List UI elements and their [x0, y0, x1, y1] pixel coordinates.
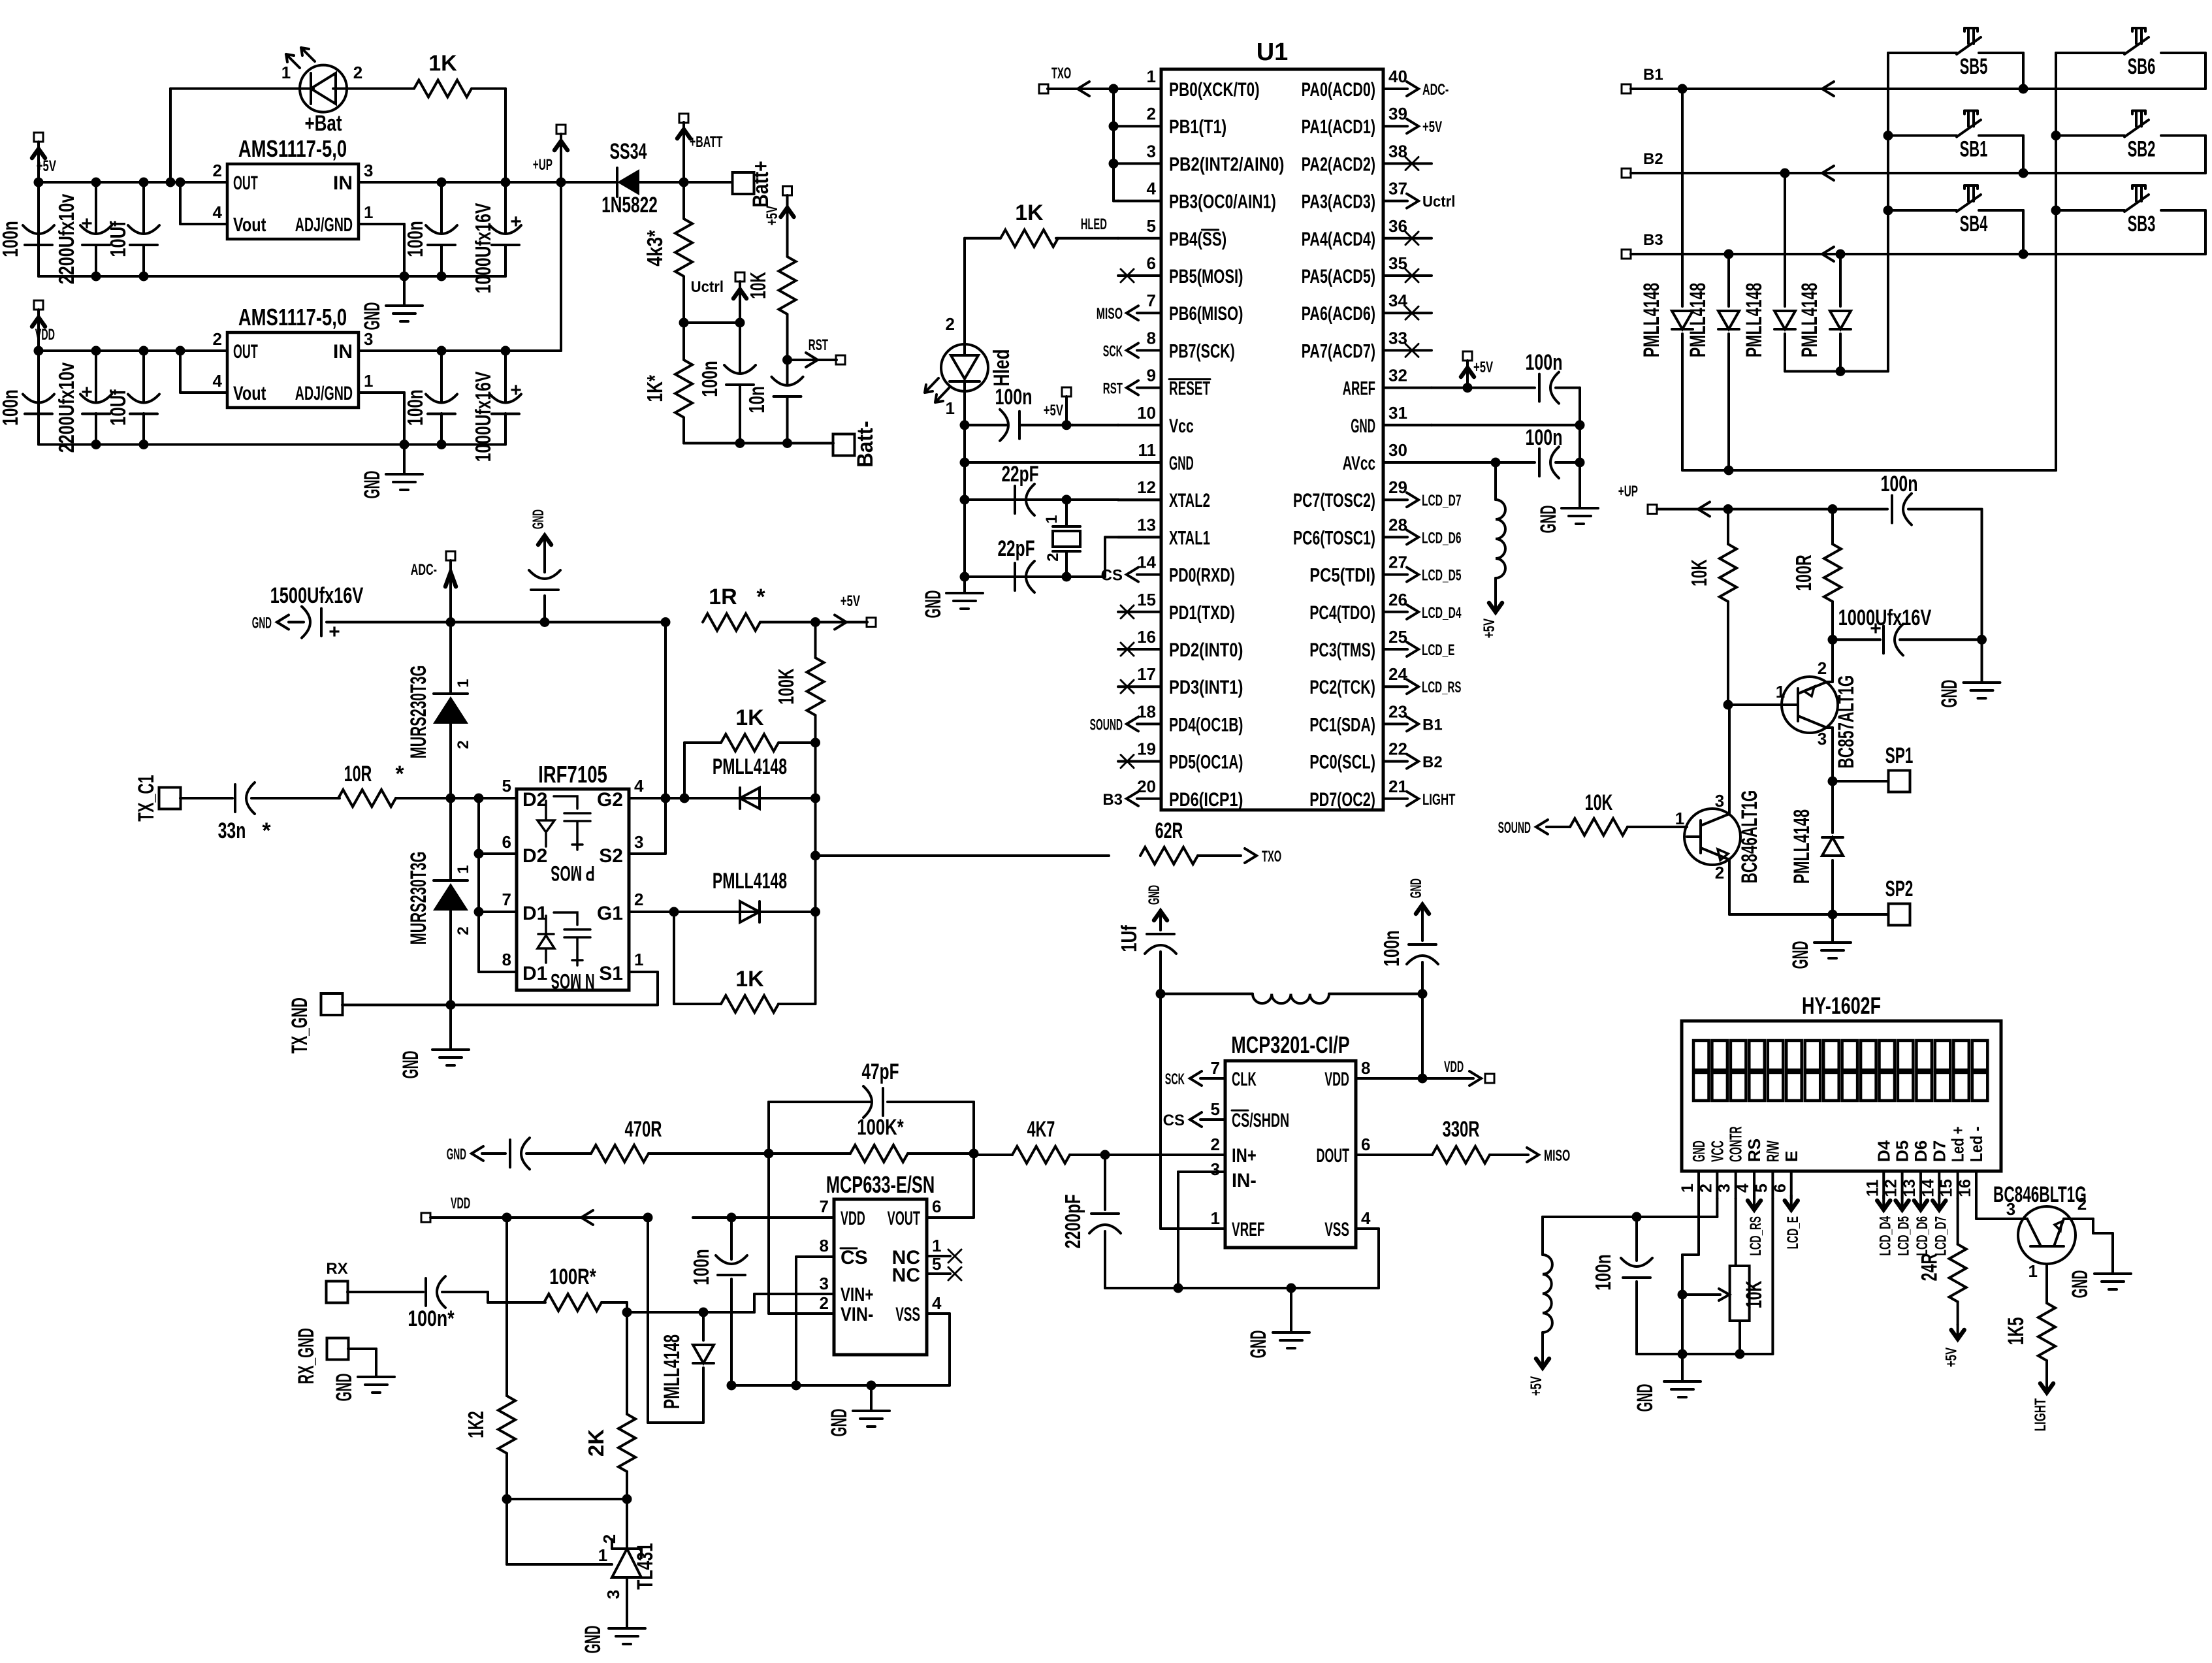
IC IRF7105 body — [517, 789, 629, 990]
capacitor 33n* — [180, 797, 232, 799]
svg-text:VIN-: VIN- — [841, 1304, 873, 1325]
svg-text:OUT: OUT — [233, 341, 258, 363]
wire +UP vertical to reg2 — [560, 182, 562, 351]
svg-text:4: 4 — [1361, 1208, 1371, 1228]
svg-text:13: 13 — [1900, 1179, 1919, 1197]
svg-text:CS: CS — [1163, 1112, 1185, 1129]
LCD pin 5 R/W — [1771, 1171, 1774, 1199]
pin 25 PC3(TMS) — [1383, 648, 1407, 651]
capacitor 100n (input 1) — [25, 244, 52, 246]
wire RX jog — [487, 1292, 489, 1302]
wire G1 pin2 — [629, 911, 816, 913]
svg-text:1000Ufx16V: 1000Ufx16V — [471, 203, 495, 294]
svg-text:VOUT: VOUT — [888, 1208, 920, 1229]
wire gnd drop — [1579, 425, 1581, 508]
connector TX_GND — [321, 993, 343, 1015]
net VDD — [34, 300, 43, 310]
svg-text:CLK: CLK — [1232, 1069, 1257, 1090]
svg-text:PC1(SDA): PC1(SDA) — [1309, 714, 1375, 735]
pin 31 GND — [1383, 424, 1432, 427]
svg-text:AVcc: AVcc — [1343, 453, 1375, 474]
svg-text:2: 2 — [455, 740, 472, 749]
svg-text:CONTR: CONTR — [1726, 1126, 1746, 1162]
svg-text:2: 2 — [213, 161, 222, 180]
svg-text:*: * — [262, 818, 271, 843]
switch SB5 — [1887, 53, 1889, 372]
svg-text:5: 5 — [1147, 216, 1156, 236]
svg-text:VSS: VSS — [895, 1304, 920, 1325]
wire LCD bottom gnd bus — [1637, 1353, 1772, 1355]
net GND arrow (470R) — [472, 1146, 483, 1161]
net LCD_D4 arrow pin26 — [1407, 605, 1419, 619]
capacitor 100n (LCD) — [1635, 1217, 1638, 1261]
connector RX — [327, 1282, 348, 1303]
resistor 2K — [626, 1312, 628, 1414]
capacitor 10n — [786, 360, 789, 383]
svg-text:PC0(SCL): PC0(SCL) — [1309, 752, 1375, 773]
svg-text:PC3(TMS): PC3(TMS) — [1309, 639, 1375, 661]
svg-text:1K: 1K — [735, 967, 764, 992]
wire vcc to inductor — [1541, 1217, 1544, 1255]
svg-text:100K*: 100K* — [857, 1115, 904, 1140]
capacitor 22pF (XTAL1) — [1014, 563, 1016, 590]
svg-text:TXO: TXO — [1262, 848, 1281, 865]
svg-text:LCD_RS: LCD_RS — [1747, 1216, 1765, 1256]
svg-text:GND: GND — [1351, 415, 1375, 437]
net VDD (opamp) — [421, 1213, 430, 1222]
svg-text:HY-1602F: HY-1602F — [1802, 992, 1881, 1019]
inductor L2 (VDD) — [1253, 994, 1329, 1004]
svg-text:1: 1 — [1211, 1208, 1220, 1228]
svg-text:13: 13 — [1137, 515, 1156, 534]
svg-text:LCD_D7: LCD_D7 — [1932, 1216, 1949, 1256]
svg-text:11: 11 — [1138, 440, 1157, 460]
LCD pin 3 CONTR — [1735, 1171, 1737, 1199]
pin 15 PD1(TXD) — [1118, 611, 1161, 613]
svg-text:10K: 10K — [1742, 1280, 1767, 1308]
svg-text:25: 25 — [1388, 627, 1407, 647]
svg-text:12: 12 — [1137, 477, 1156, 497]
X noconnect pin35 — [1405, 269, 1419, 282]
net LCD_D5 arrow pin27 — [1407, 568, 1419, 582]
net +BATT — [679, 178, 689, 187]
svg-text:PA7(ACD7): PA7(ACD7) — [1302, 340, 1375, 362]
connector B1 — [1622, 84, 1631, 93]
net LCD_D6 arrow pin13 — [1914, 1201, 1927, 1210]
resistor 470R — [591, 1145, 649, 1162]
switch SB2 — [2055, 135, 2057, 137]
net MISO arrow — [1527, 1148, 1539, 1162]
resistor 62R — [1140, 847, 1198, 864]
svg-text:1: 1 — [364, 202, 373, 222]
wire divider bottoms — [507, 1498, 627, 1500]
svg-text:24R: 24R — [1917, 1253, 1942, 1282]
wire clamp to VDD — [648, 1421, 703, 1424]
ground GND (reg1) — [403, 276, 406, 306]
diode PMLL4148 (B2) — [1780, 169, 1790, 178]
svg-text:D2: D2 — [522, 789, 547, 811]
svg-text:LCD_RS: LCD_RS — [1422, 679, 1462, 696]
wire gnd corner — [1981, 509, 1983, 640]
wire S1 hook — [629, 971, 658, 973]
capacitor 100n (reg1 out?in) — [440, 182, 443, 233]
pin 36 PA4(ACD4) — [1383, 237, 1432, 240]
wire G2 pin4 — [629, 797, 816, 799]
svg-text:VDD: VDD — [35, 326, 55, 344]
pin 17 PD3(INT1) — [1118, 685, 1161, 688]
LCD pin 12 D5 — [1901, 1171, 1904, 1199]
resistor 4K7 — [1012, 1146, 1070, 1163]
svg-text:TX_C1: TX_C1 — [134, 775, 159, 821]
svg-text:Vout: Vout — [233, 214, 266, 236]
svg-text:100n: 100n — [403, 221, 427, 257]
svg-text:100n: 100n — [0, 389, 22, 425]
switch SB1 — [1887, 135, 1889, 137]
svg-text:1: 1 — [1776, 682, 1785, 702]
pin 13 XTAL1 — [1118, 536, 1161, 538]
resistor 4k3* — [682, 182, 685, 218]
svg-text:10n: 10n — [745, 386, 769, 413]
svg-text:2K: 2K — [584, 1429, 608, 1457]
wire Vcc pin10 — [1072, 424, 1118, 427]
svg-text:4: 4 — [932, 1293, 942, 1313]
svg-text:SP1: SP1 — [1885, 743, 1914, 768]
svg-text:1K: 1K — [735, 705, 764, 730]
resistor 100R — [1828, 504, 1838, 514]
svg-text:IN-: IN- — [1232, 1170, 1257, 1191]
X noconnect pin34 — [1405, 306, 1419, 319]
svg-text:3: 3 — [364, 161, 373, 180]
pin 14 PD0(RXD) — [1137, 573, 1161, 576]
pin 27 PC5(TDI) — [1383, 573, 1407, 576]
svg-text:S1: S1 — [599, 963, 623, 984]
X noconnect NC5 — [927, 1272, 950, 1275]
pin 38 PA2(ACD2) — [1383, 162, 1432, 165]
svg-text:3: 3 — [1147, 141, 1156, 161]
svg-text:PD6(ICP1): PD6(ICP1) — [1169, 789, 1243, 811]
svg-text:6: 6 — [1147, 253, 1156, 273]
wire VOUT pin6 to 100K node — [927, 1216, 974, 1219]
resistor 100K* — [850, 1145, 908, 1162]
svg-text:PB6(MISO): PB6(MISO) — [1169, 303, 1243, 325]
net SCK arrow (CLK pin7) — [1200, 1077, 1225, 1080]
svg-text:SB3: SB3 — [2128, 212, 2156, 236]
svg-text:+Bat: +Bat — [304, 111, 342, 136]
connector Batt+ — [733, 172, 754, 194]
svg-text:3: 3 — [820, 1274, 829, 1293]
svg-text:VSS: VSS — [1324, 1219, 1349, 1240]
wire bottom rail 3 — [684, 442, 833, 445]
svg-text:100n: 100n — [0, 221, 22, 257]
svg-text:+5V: +5V — [1044, 402, 1063, 419]
X noconnect pin16 — [1121, 643, 1134, 656]
X noconnect NC1 — [927, 1255, 950, 1257]
svg-text:2: 2 — [455, 926, 472, 935]
svg-text:R/W: R/W — [1763, 1140, 1782, 1162]
wire emitter to GND — [2092, 1219, 2094, 1233]
svg-text:100n: 100n — [689, 1249, 713, 1285]
svg-text:CS/SHDN: CS/SHDN — [1232, 1110, 1289, 1131]
resistor 1K2 — [502, 1213, 512, 1223]
capacitor 100n (Uctrl) — [735, 318, 745, 328]
wire Vout jumper (2) — [180, 391, 227, 394]
svg-text:PMLL4148: PMLL4148 — [660, 1334, 684, 1409]
svg-text:100n: 100n — [1591, 1254, 1615, 1290]
svg-text:RESET: RESET — [1169, 378, 1210, 400]
svg-text:7: 7 — [1147, 291, 1156, 310]
resistor 100R* — [544, 1294, 601, 1311]
wire GND pin11 — [965, 461, 1118, 464]
svg-text:PB1(T1): PB1(T1) — [1169, 116, 1226, 138]
svg-text:22: 22 — [1388, 739, 1407, 759]
svg-text:SCK: SCK — [1165, 1071, 1185, 1088]
crystal Q1 — [1062, 495, 1072, 505]
svg-text:6: 6 — [1361, 1135, 1370, 1154]
svg-text:D4: D4 — [1874, 1140, 1893, 1162]
svg-text:4: 4 — [213, 371, 223, 391]
diode SS34 1N5822 — [617, 169, 639, 195]
svg-text:GND: GND — [252, 615, 272, 632]
LCD pin 4 RS — [1753, 1171, 1755, 1199]
diode PMLL4148 (RX clamp) — [702, 1312, 705, 1340]
svg-text:PA5(ACD5): PA5(ACD5) — [1302, 266, 1375, 287]
svg-text:P MOS: P MOS — [551, 862, 594, 885]
capacitor 100n (+UP) — [1891, 496, 1893, 523]
svg-text:MISO: MISO — [1097, 305, 1123, 323]
ground GND (RX) — [348, 1348, 376, 1350]
svg-text:LCD_D6: LCD_D6 — [1914, 1216, 1931, 1256]
svg-text:100R: 100R — [1791, 555, 1816, 591]
pin 35 PA5(ACD5) — [1383, 274, 1432, 277]
svg-text:4k3*: 4k3* — [643, 230, 667, 266]
svg-text:LCD_D7: LCD_D7 — [1422, 492, 1462, 509]
svg-text:1: 1 — [1043, 515, 1061, 523]
wire 100K column — [814, 743, 817, 912]
svg-text:62R: 62R — [1155, 818, 1183, 843]
svg-text:VIN+: VIN+ — [841, 1284, 873, 1306]
svg-text:36: 36 — [1388, 216, 1407, 236]
svg-text:1000Ufx16V: 1000Ufx16V — [471, 372, 495, 462]
wire ADJ/GND to bottom (2) — [359, 391, 404, 394]
svg-text:8: 8 — [502, 950, 511, 969]
net RST arrow pin9 — [1127, 381, 1138, 395]
svg-text:PB2(INT2/AIN0): PB2(INT2/AIN0) — [1169, 153, 1284, 175]
svg-text:Led +: Led + — [1948, 1126, 1968, 1162]
svg-text:1: 1 — [932, 1236, 941, 1255]
IC MCP3201 body — [1225, 1061, 1356, 1248]
svg-text:2: 2 — [600, 1534, 619, 1543]
svg-text:*: * — [756, 585, 765, 609]
svg-text:2: 2 — [634, 890, 643, 909]
svg-text:IN+: IN+ — [1232, 1145, 1257, 1167]
svg-text:1: 1 — [598, 1545, 607, 1565]
svg-text:VDD: VDD — [1444, 1058, 1464, 1076]
svg-text:RX_GND: RX_GND — [294, 1328, 319, 1384]
pin 4 PB3(OC0/AIN1) — [1118, 200, 1161, 202]
LCD character cells row2 — [1693, 1073, 1709, 1101]
svg-text:PA4(ACD4): PA4(ACD4) — [1302, 229, 1375, 250]
svg-text:PA1(ACD1): PA1(ACD1) — [1302, 116, 1375, 138]
svg-text:2: 2 — [1818, 658, 1827, 678]
svg-text:GND: GND — [360, 302, 385, 331]
wire bus pins 1-4 — [1112, 89, 1115, 201]
svg-text:XTAL1: XTAL1 — [1169, 527, 1210, 549]
svg-text:CS: CS — [841, 1247, 868, 1268]
svg-text:E: E — [1782, 1151, 1801, 1162]
svg-text:MCP633-E/SN: MCP633-E/SN — [826, 1171, 935, 1198]
svg-text:3: 3 — [634, 832, 643, 852]
svg-text:2200Ufx10v: 2200Ufx10v — [54, 193, 78, 284]
wire VDD rail 2 — [39, 349, 227, 352]
wire AVcc pin30 — [1432, 461, 1535, 464]
svg-text:LCD_D4: LCD_D4 — [1876, 1216, 1894, 1256]
capacitor 1000Ufx16V (sp) — [1828, 635, 1838, 645]
svg-text:2: 2 — [1211, 1135, 1220, 1154]
pin 33 PA7(ACD7) — [1383, 349, 1432, 351]
svg-text:1: 1 — [1675, 809, 1684, 828]
svg-text:ADC-: ADC- — [411, 561, 437, 579]
svg-text:+UP: +UP — [1618, 483, 1638, 500]
capacitor (470R gnd) — [482, 1152, 505, 1155]
svg-text:12: 12 — [1882, 1179, 1900, 1197]
svg-text:PMLL4148: PMLL4148 — [1742, 283, 1767, 357]
IC HY-1602F body — [1682, 1021, 2001, 1171]
svg-text:PD1(TXD): PD1(TXD) — [1169, 602, 1235, 624]
wire AREF pin32 — [1432, 387, 1535, 389]
net +5V at Vcc — [1062, 387, 1071, 396]
wire VSS pin4 hook — [927, 1312, 950, 1315]
net +5V (backlight) — [1951, 1330, 1964, 1339]
svg-text:2: 2 — [1715, 863, 1724, 882]
svg-text:LCD_D5: LCD_D5 — [1895, 1216, 1913, 1256]
svg-text:3: 3 — [1716, 1184, 1734, 1193]
net SP1 — [1828, 777, 1838, 786]
svg-text:D5: D5 — [1893, 1140, 1912, 1162]
regulator AMS1117-5,0 (2) — [227, 332, 359, 408]
svg-text:B1: B1 — [1643, 66, 1663, 84]
svg-text:BC846ALT1G: BC846ALT1G — [1737, 790, 1762, 884]
svg-text:8: 8 — [1147, 328, 1156, 347]
svg-text:22pF: 22pF — [997, 536, 1034, 561]
svg-text:IRF7105: IRF7105 — [538, 761, 607, 788]
svg-text:S2: S2 — [599, 845, 623, 867]
resistor 100K — [814, 622, 817, 658]
capacitor 2200Ufx10v (1) — [95, 182, 97, 233]
net +5V arrow pin39 — [1407, 119, 1419, 133]
diode PMLL4148 (G2) — [740, 788, 760, 809]
net GND arrow (1500Uf) — [277, 615, 289, 630]
svg-text:6: 6 — [502, 832, 511, 852]
svg-text:B2: B2 — [1643, 150, 1663, 168]
svg-text:34: 34 — [1388, 291, 1407, 310]
pot wiper arrow — [1682, 1293, 1720, 1296]
pin 32 AREF — [1383, 387, 1432, 389]
svg-text:PA2(ACD2): PA2(ACD2) — [1302, 153, 1375, 175]
svg-text:OUT: OUT — [233, 172, 258, 194]
svg-text:14: 14 — [1137, 553, 1156, 572]
svg-text:XTAL2: XTAL2 — [1169, 490, 1210, 511]
pin 28 PC6(TOSC1) — [1383, 536, 1407, 538]
capacitor 10Uf (2) — [142, 351, 145, 402]
capacitor 100n (reg2) — [440, 351, 443, 402]
svg-text:+5V: +5V — [37, 157, 56, 175]
net +5V (1R) — [810, 617, 820, 627]
svg-text:GND: GND — [827, 1409, 852, 1437]
resistor 1K* — [682, 323, 685, 359]
LCD pin 1 GND — [1697, 1171, 1700, 1199]
svg-text:G2: G2 — [597, 789, 623, 811]
svg-text:G1: G1 — [597, 903, 623, 924]
svg-text:100n*: 100n* — [408, 1306, 455, 1331]
svg-text:28: 28 — [1388, 515, 1407, 534]
ground GND (TX) — [449, 1005, 452, 1050]
net B3 arrow pin20 — [1127, 792, 1138, 806]
LCD pin 15 Led + — [1957, 1171, 1959, 1199]
pin 34 PA6(ACD6) — [1383, 312, 1432, 314]
svg-text:SOUND: SOUND — [1498, 819, 1531, 837]
svg-text:AREF: AREF — [1343, 378, 1375, 400]
wire CS hook pin8 — [796, 1255, 834, 1258]
wire R/W to gnd bus — [1771, 1199, 1774, 1354]
pin 30 AVcc — [1383, 461, 1432, 464]
svg-text:17: 17 — [1137, 664, 1156, 684]
wire B3 row — [1631, 253, 2205, 255]
svg-text:10: 10 — [1137, 403, 1156, 423]
svg-text:Batt+: Batt+ — [748, 161, 773, 207]
LED Hled — [941, 344, 988, 391]
wire IN- pin3 — [1178, 1171, 1225, 1173]
diode PMLL4148 (B1) — [1678, 84, 1688, 94]
capacitor 100n* — [347, 1291, 423, 1293]
svg-text:1K: 1K — [1015, 201, 1044, 225]
svg-text:100n: 100n — [1379, 930, 1403, 966]
svg-text:B3: B3 — [1643, 231, 1663, 249]
pin 18 PD4(OC1B) — [1137, 722, 1161, 725]
svg-text:+: + — [81, 213, 93, 234]
ground GND (reg2) — [403, 445, 406, 475]
svg-text:SCK: SCK — [1103, 342, 1123, 360]
svg-text:2: 2 — [2077, 1194, 2087, 1214]
svg-text:1K2: 1K2 — [464, 1411, 488, 1438]
wire GND pin31 — [1432, 424, 1580, 427]
capacitor 100n (opamp) — [730, 1218, 733, 1259]
svg-text:18: 18 — [1137, 702, 1156, 721]
svg-text:LCD_D4: LCD_D4 — [1422, 604, 1462, 622]
resistor 1R* — [703, 614, 760, 631]
wire top line to 1R — [446, 617, 456, 627]
svg-text:VDD: VDD — [451, 1195, 470, 1212]
svg-text:+5V: +5V — [1473, 359, 1493, 376]
svg-text:29: 29 — [1388, 477, 1407, 497]
net +5V (LCD) — [1536, 1359, 1549, 1368]
svg-text:11: 11 — [1863, 1180, 1882, 1197]
svg-text:19: 19 — [1137, 739, 1156, 759]
svg-text:PC5(TDI): PC5(TDI) — [1309, 565, 1375, 587]
svg-text:330R: 330R — [1442, 1117, 1479, 1142]
svg-text:100R*: 100R* — [549, 1265, 596, 1289]
svg-text:GND: GND — [1633, 1384, 1658, 1412]
svg-text:B2: B2 — [1422, 754, 1443, 771]
svg-text:10Uf: 10Uf — [106, 389, 130, 426]
svg-text:IN: IN — [333, 172, 353, 194]
svg-text:3: 3 — [1715, 791, 1724, 811]
svg-text:PD7(OC2): PD7(OC2) — [1309, 789, 1375, 811]
svg-text:3: 3 — [1818, 729, 1827, 749]
svg-text:*: * — [395, 762, 404, 786]
wire XTAL1 pin13 — [1105, 536, 1161, 538]
svg-text:PA0(ACD0): PA0(ACD0) — [1302, 79, 1375, 101]
net CS arrow pin14 — [1127, 568, 1138, 582]
